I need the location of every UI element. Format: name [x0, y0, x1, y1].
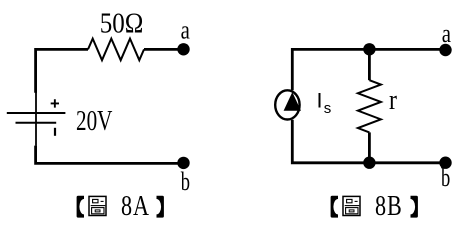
- svg-text:20V: 20V: [76, 106, 112, 136]
- svg-text:r: r: [389, 84, 397, 115]
- svg-text:s: s: [324, 100, 332, 117]
- svg-text:8B: 8B: [375, 192, 402, 222]
- svg-text:50Ω: 50Ω: [100, 7, 144, 39]
- svg-text:8A: 8A: [121, 192, 150, 222]
- svg-text:b: b: [441, 163, 450, 192]
- svg-text:a: a: [181, 17, 191, 46]
- svg-text:b: b: [181, 167, 190, 196]
- svg-text:a: a: [442, 20, 452, 49]
- svg-text:I: I: [317, 89, 323, 113]
